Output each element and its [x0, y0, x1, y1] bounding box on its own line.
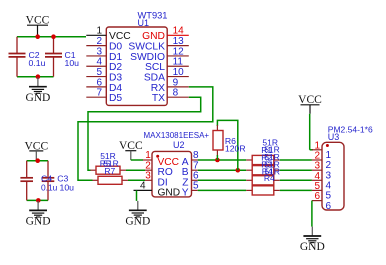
svg-text:7: 7 — [96, 88, 102, 99]
svg-text:GND: GND — [300, 241, 325, 253]
svg-text:GND: GND — [158, 187, 181, 198]
svg-text:U3: U3 — [328, 132, 340, 142]
svg-text:3: 3 — [145, 171, 151, 182]
svg-text:4: 4 — [140, 181, 146, 192]
svg-text:120R: 120R — [225, 143, 246, 153]
svg-text:R7: R7 — [104, 166, 115, 176]
svg-text:U2: U2 — [173, 140, 185, 150]
svg-text:GND: GND — [125, 216, 150, 228]
svg-text:GND: GND — [26, 216, 51, 228]
svg-text:10u: 10u — [65, 58, 80, 68]
svg-text:0.1u: 0.1u — [41, 183, 58, 193]
svg-text:Y: Y — [182, 187, 189, 198]
svg-text:6: 6 — [326, 201, 332, 212]
svg-text:0.1u: 0.1u — [29, 58, 46, 68]
svg-text:10u: 10u — [60, 183, 75, 193]
svg-text:TX: TX — [152, 93, 165, 104]
svg-text:GND: GND — [25, 92, 50, 104]
svg-text:8: 8 — [173, 88, 179, 99]
svg-text:MAX13081EESA+: MAX13081EESA+ — [144, 131, 210, 140]
svg-text:6: 6 — [314, 191, 320, 202]
svg-text:D5: D5 — [109, 93, 122, 104]
svg-text:R4: R4 — [264, 173, 275, 183]
